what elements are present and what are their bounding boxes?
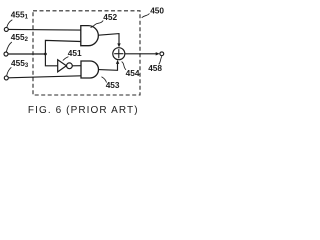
svg-text:458: 458: [148, 63, 162, 73]
svg-text:451: 451: [68, 48, 82, 58]
svg-text:450: 450: [150, 6, 164, 16]
svg-text:453: 453: [106, 80, 120, 90]
svg-text:FIG. 6 (PRIOR ART): FIG. 6 (PRIOR ART): [28, 105, 139, 116]
svg-text:452: 452: [103, 12, 117, 22]
svg-text:454: 454: [126, 68, 140, 78]
